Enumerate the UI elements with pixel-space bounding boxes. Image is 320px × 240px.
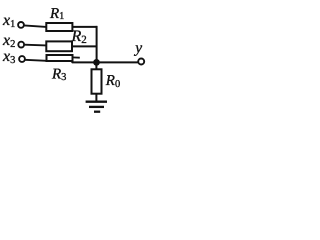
node x1 terminal [18, 22, 24, 28]
svg-text:y: y [133, 39, 142, 56]
wire x2 to R2 [24, 44, 46, 47]
bus wire vertical [96, 26, 98, 63]
resistor R2 [46, 41, 72, 51]
wire x3 to R3 [25, 60, 47, 61]
wire R3 stub [72, 56, 80, 58]
resistor R1 [46, 23, 72, 31]
node x2 terminal [18, 42, 24, 48]
node y terminal [138, 59, 144, 65]
wire x1 to R1 [24, 25, 46, 27]
wire R0 to ground [95, 94, 97, 101]
wire R1 to bus [72, 26, 97, 28]
ground [86, 102, 107, 112]
node x3 terminal [19, 56, 25, 62]
wire junction to R0 [95, 62, 97, 69]
wire junction to y terminal [97, 61, 139, 63]
resistor R0 [92, 69, 102, 93]
wire R2 to bus [72, 45, 97, 47]
wire R3 to junction [72, 61, 97, 62]
resistor R3 [47, 55, 73, 61]
junction dot [93, 59, 100, 66]
